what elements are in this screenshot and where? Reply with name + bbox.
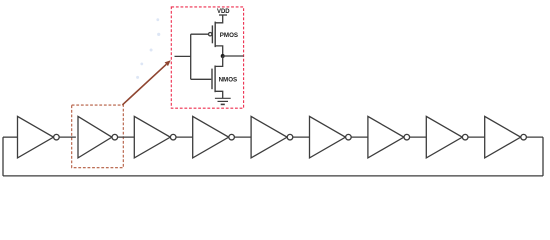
wire NMOS source to ground [215, 91, 223, 98]
inverter U8 [426, 116, 462, 157]
VDD rail symbol [219, 14, 227, 16]
wire NMOS drain to output node [215, 56, 223, 66]
wire to NMOS gate [191, 78, 212, 80]
wire to PMOS gate [191, 33, 209, 35]
wire U1-U2 [59, 136, 76, 138]
wire U9 output to feedback [526, 136, 543, 138]
wire U3-U4 [176, 136, 193, 138]
svg-text:NMOS: NMOS [219, 76, 238, 83]
inverter U9 [485, 116, 521, 157]
PMOS gate bubble [209, 33, 212, 36]
ground [215, 97, 231, 99]
wire U2-U3 [118, 136, 135, 138]
wire U4-U5 [234, 136, 251, 138]
wire input vertical [190, 34, 192, 79]
inverter U2 (highlighted) [78, 116, 112, 157]
transistor PMOS channel [214, 22, 216, 47]
inverter U5 [251, 116, 287, 157]
node OUT junction dot [221, 54, 225, 58]
wire output [223, 55, 244, 57]
feedback wire right vertical [542, 137, 544, 176]
highlight box around inverter U2 [72, 105, 124, 168]
inset box (CMOS inverter detail) [171, 7, 243, 108]
wire U8-U9 [468, 136, 485, 138]
inverter U7 [368, 116, 404, 157]
inverter U3 [134, 116, 170, 157]
inverter U1 [18, 116, 54, 157]
wire U7-U8 [410, 136, 427, 138]
callout arrow from highlight box to inset [123, 60, 171, 105]
transistor PMOS gate bar [211, 25, 213, 43]
inverter U6 [310, 116, 346, 157]
feedback wire left vertical [2, 137, 4, 176]
inverter U4 [193, 116, 229, 157]
node IN wire [175, 55, 191, 57]
svg-text:PMOS: PMOS [220, 32, 238, 39]
wire feedback to U1 input [3, 136, 18, 138]
wire VDD to PMOS source [215, 15, 223, 23]
wire U5-U6 [293, 136, 310, 138]
transistor NMOS channel [214, 66, 216, 93]
faint watermark specks [136, 18, 160, 79]
wire PMOS drain to output [215, 46, 223, 56]
wire U6-U7 [351, 136, 368, 138]
feedback wire bottom [3, 175, 543, 177]
svg-text:VDD: VDD [217, 9, 230, 15]
transistor NMOS gate bar [211, 69, 213, 90]
